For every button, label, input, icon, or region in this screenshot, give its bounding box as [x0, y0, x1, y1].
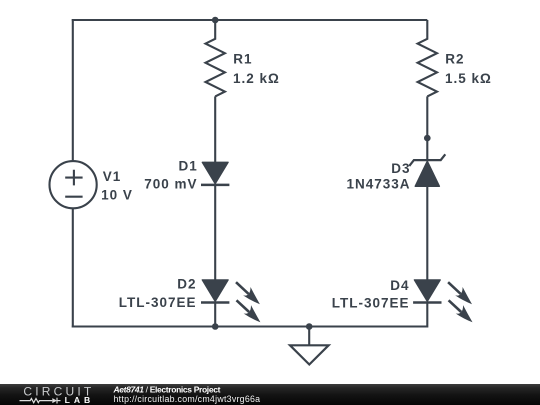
node dot between R2 and D3: [424, 135, 431, 142]
svg-text:Aet8741 / Electronics Project: Aet8741 / Electronics Project: [113, 384, 221, 394]
svg-text:1.5 kΩ: 1.5 kΩ: [445, 71, 492, 86]
svg-text:LTL-307EE: LTL-307EE: [332, 296, 410, 311]
node dot bottom (D2 to bottom net): [212, 323, 219, 330]
svg-text:D2: D2: [177, 277, 196, 292]
LED D4: [413, 280, 441, 303]
svg-text:R1: R1: [233, 51, 252, 66]
wire R2 to zener node: [426, 96, 428, 160]
svg-text:R2: R2: [445, 51, 464, 66]
LED D2: [201, 280, 229, 303]
svg-text:http://circuitlab.com/cm4jwt3v: http://circuitlab.com/cm4jwt3vrg66a: [114, 394, 261, 404]
diode D1: [201, 162, 229, 185]
resistor R1: [206, 20, 225, 96]
svg-text:D3: D3: [391, 161, 410, 176]
node dot ground tap: [306, 323, 313, 330]
svg-text:700 mV: 700 mV: [144, 176, 197, 191]
LED D2 light arrows: [236, 282, 260, 322]
svg-text:D1: D1: [179, 159, 198, 174]
logo resistor-diode glyph: [20, 398, 61, 404]
wire D3 to D4: [426, 186, 428, 280]
svg-text:V1: V1: [103, 169, 122, 184]
svg-text:D4: D4: [390, 278, 409, 293]
wire ground stub: [308, 327, 310, 346]
svg-text:LTL-307EE: LTL-307EE: [119, 295, 197, 310]
ground symbol: [290, 345, 329, 364]
zener diode D3: [409, 154, 445, 186]
wire R1 to D1: [214, 96, 216, 163]
wire D2 to bottom net: [214, 303, 216, 327]
voltage source V1: [50, 161, 97, 208]
wire left rail lower (V1 bottom to bottom net): [72, 208, 74, 327]
wire bottom net: [72, 325, 428, 327]
wire D4 to bottom corner: [426, 303, 428, 328]
svg-text:1.2 kΩ: 1.2 kΩ: [233, 71, 280, 86]
svg-text:1N4733A: 1N4733A: [346, 176, 410, 191]
wire left rail upper (top net to V1): [72, 19, 74, 161]
svg-text:10 V: 10 V: [101, 188, 133, 203]
wire D1 to D2: [214, 185, 216, 281]
resistor R2: [418, 20, 437, 96]
LED D4 light arrows: [448, 282, 472, 322]
wire top net: [72, 19, 428, 21]
footer bar: [0, 384, 540, 405]
svg-text:LAB: LAB: [65, 395, 95, 405]
node A dot (R1 tap on top net): [212, 17, 219, 24]
